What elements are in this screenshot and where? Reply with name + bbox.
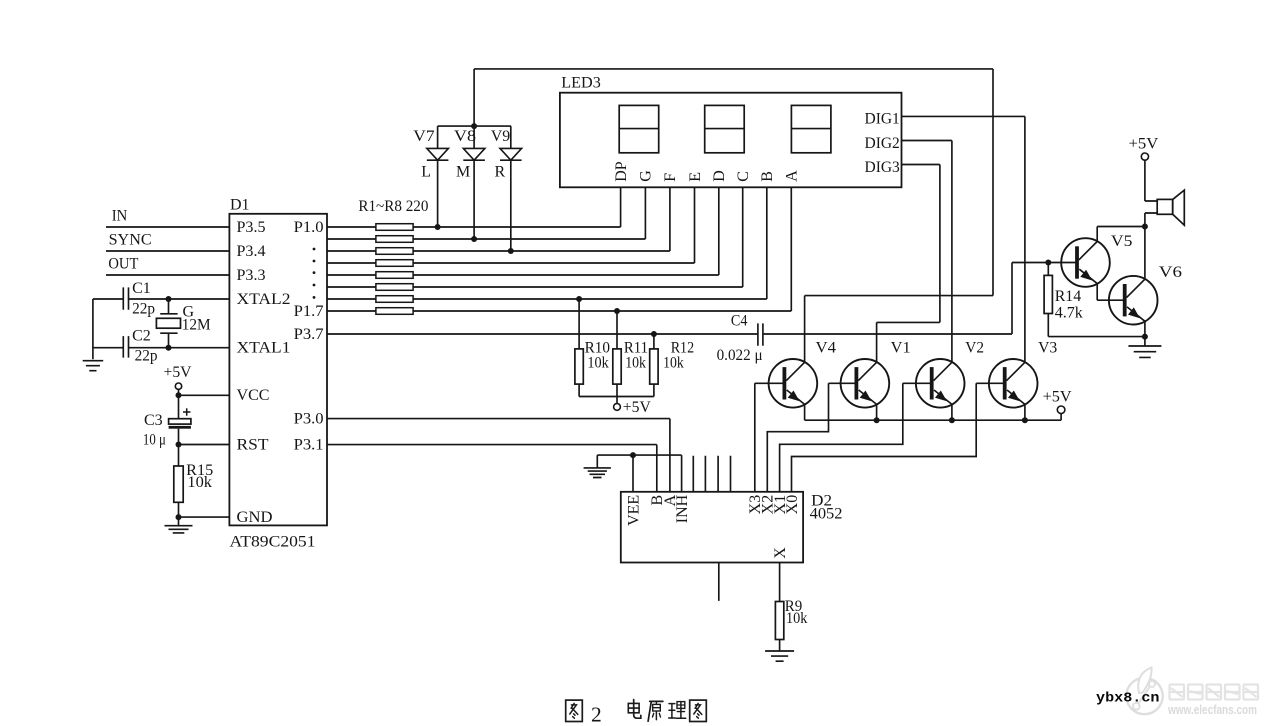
svg-text:E: E: [687, 172, 704, 182]
svg-text:INH: INH: [674, 494, 691, 523]
svg-text:C4: C4: [731, 312, 748, 329]
svg-text:C2: C2: [132, 328, 151, 345]
svg-text:F: F: [662, 173, 679, 182]
svg-text:C: C: [735, 171, 752, 182]
svg-text:OUT: OUT: [108, 256, 138, 273]
svg-text:22p: 22p: [132, 301, 155, 318]
svg-text:P3.7: P3.7: [294, 326, 324, 343]
svg-text:P3.3: P3.3: [237, 267, 266, 284]
svg-text:P3.4: P3.4: [237, 243, 266, 260]
svg-text:XTAL1: XTAL1: [237, 340, 291, 357]
svg-text:+5V: +5V: [623, 399, 651, 416]
svg-text:VEE: VEE: [625, 495, 642, 526]
svg-text:V2: V2: [965, 340, 984, 357]
svg-text:+5V: +5V: [1043, 388, 1072, 405]
svg-text:M: M: [456, 163, 470, 180]
svg-text:X: X: [772, 547, 789, 559]
svg-text:+5V: +5V: [1129, 135, 1159, 152]
svg-text:G: G: [638, 170, 655, 182]
svg-text:X0: X0: [784, 495, 801, 515]
svg-text:R14: R14: [1055, 288, 1082, 305]
svg-text:V8: V8: [454, 128, 476, 145]
svg-text:DIG1: DIG1: [865, 111, 900, 128]
svg-text:D1: D1: [230, 197, 250, 214]
svg-text:22p: 22p: [135, 347, 158, 364]
svg-text:P3.0: P3.0: [294, 411, 324, 428]
svg-text:RST: RST: [237, 436, 269, 453]
svg-text:XTAL2: XTAL2: [237, 291, 291, 308]
svg-text:10k: 10k: [187, 474, 212, 491]
svg-text:V5: V5: [1111, 233, 1133, 250]
svg-text:P3.1: P3.1: [294, 437, 324, 454]
svg-text:2: 2: [591, 702, 602, 726]
svg-text:R: R: [495, 163, 506, 180]
svg-text:P3.5: P3.5: [237, 219, 266, 236]
svg-text:+5V: +5V: [164, 364, 192, 381]
svg-text:10 μ: 10 μ: [143, 431, 166, 448]
svg-text:C3: C3: [144, 412, 163, 429]
svg-text:4.7k: 4.7k: [1055, 305, 1083, 322]
svg-text:DIG3: DIG3: [865, 159, 900, 176]
svg-text:VCC: VCC: [237, 387, 270, 404]
svg-text:P1.7: P1.7: [294, 303, 324, 320]
svg-text:12M: 12M: [182, 316, 211, 333]
svg-text:www.elecfans.com: www.elecfans.com: [1167, 703, 1257, 717]
svg-text:4052: 4052: [810, 506, 843, 523]
svg-text:DIG2: DIG2: [865, 135, 900, 152]
svg-text:V9: V9: [491, 128, 510, 145]
svg-text:IN: IN: [112, 207, 128, 224]
svg-text:B: B: [759, 171, 776, 182]
svg-text:10k: 10k: [625, 355, 646, 372]
svg-text:V6: V6: [1159, 264, 1182, 281]
svg-text:SYNC: SYNC: [109, 232, 152, 249]
svg-text:0.022 μ: 0.022 μ: [717, 347, 763, 364]
svg-text:10k: 10k: [587, 355, 608, 372]
svg-text:L: L: [421, 163, 431, 180]
svg-text:10k: 10k: [786, 610, 807, 627]
svg-text:V4: V4: [816, 340, 837, 357]
svg-text:ybx8.cn: ybx8.cn: [1096, 691, 1160, 707]
svg-text:AT89C2051: AT89C2051: [230, 534, 316, 551]
svg-text:P1.0: P1.0: [294, 219, 324, 236]
svg-text:A: A: [784, 170, 801, 182]
svg-text:GND: GND: [237, 509, 273, 526]
svg-text:C1: C1: [132, 280, 151, 297]
svg-text:V3: V3: [1038, 340, 1057, 357]
svg-text:LED3: LED3: [561, 75, 601, 92]
svg-text:10k: 10k: [663, 355, 684, 372]
svg-text:V7: V7: [413, 128, 434, 145]
svg-text:D: D: [711, 170, 728, 182]
svg-text:R1~R8 220: R1~R8 220: [358, 198, 428, 215]
svg-text:DP: DP: [613, 161, 630, 182]
svg-text:V1: V1: [891, 340, 911, 357]
